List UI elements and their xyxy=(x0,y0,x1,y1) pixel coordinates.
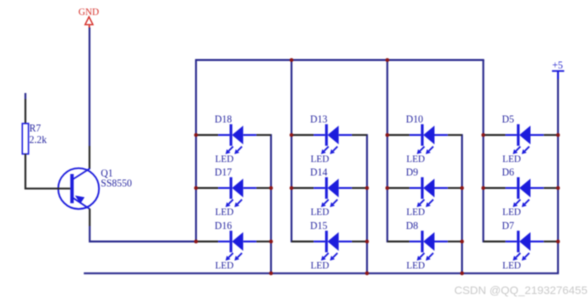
svg-text:LED: LED xyxy=(406,208,425,218)
svg-text:CSDN @QQ_2193276455: CSDN @QQ_2193276455 xyxy=(454,285,587,297)
svg-text:LED: LED xyxy=(406,261,425,271)
svg-text:LED: LED xyxy=(215,208,234,218)
svg-text:LED: LED xyxy=(215,261,234,271)
svg-text:D15: D15 xyxy=(310,221,327,232)
svg-text:LED: LED xyxy=(502,155,521,165)
svg-text:2.2k: 2.2k xyxy=(29,135,47,146)
svg-text:D7: D7 xyxy=(502,221,514,232)
svg-text:D14: D14 xyxy=(310,168,327,179)
svg-text:LED: LED xyxy=(215,155,234,165)
svg-text:SS8550: SS8550 xyxy=(101,178,132,189)
svg-text:D6: D6 xyxy=(502,168,514,179)
svg-text:D13: D13 xyxy=(310,115,327,126)
svg-text:+5: +5 xyxy=(552,61,563,72)
svg-text:D9: D9 xyxy=(406,168,418,179)
svg-text:D5: D5 xyxy=(502,115,514,126)
svg-text:D8: D8 xyxy=(406,221,418,232)
svg-text:LED: LED xyxy=(311,155,330,165)
svg-text:D10: D10 xyxy=(406,115,423,126)
svg-text:D16: D16 xyxy=(215,221,232,232)
svg-text:LED: LED xyxy=(502,261,521,271)
svg-text:LED: LED xyxy=(311,261,330,271)
svg-text:D17: D17 xyxy=(215,168,232,179)
svg-text:LED: LED xyxy=(311,208,330,218)
svg-text:LED: LED xyxy=(502,208,521,218)
svg-text:D18: D18 xyxy=(215,115,232,126)
svg-text:LED: LED xyxy=(406,155,425,165)
svg-text:R7: R7 xyxy=(29,123,41,134)
